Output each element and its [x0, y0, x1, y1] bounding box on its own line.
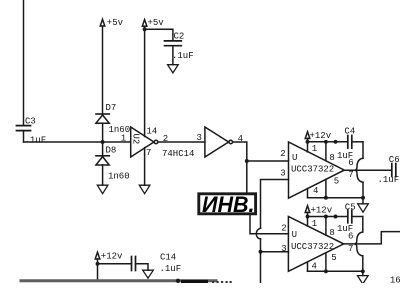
node dot +5v rail — [143, 27, 147, 31]
wire hop over net-label wire — [256, 228, 260, 239]
svg-text:8: 8 — [329, 153, 334, 163]
pin 4 line — [307, 189, 309, 198]
capacitor C2 — [165, 41, 182, 65]
wire bottom rail lower UCC — [308, 270, 363, 272]
svg-text:U2: U2 — [131, 133, 141, 144]
svg-text:1: 1 — [121, 134, 126, 144]
power +5v (second, feeds pin 14 and C2) — [142, 20, 147, 137]
svg-text:1uF: 1uF — [337, 224, 353, 234]
pin 5 line — [325, 179, 327, 197]
svg-text:1n60: 1n60 — [109, 125, 131, 135]
pin 8 line lower — [325, 217, 327, 236]
svg-text:1uF: 1uF — [337, 151, 353, 161]
node dots rail lower — [306, 215, 310, 219]
wire right vertical lower — [362, 217, 364, 233]
ground below C14 — [143, 270, 154, 278]
wire stub from box bottom to pin 2 of lower UCC — [250, 215, 288, 234]
node dot pin4/pin2 tee — [245, 159, 249, 163]
wire right vertical upper — [362, 142, 364, 159]
svg-text:14: 14 — [147, 127, 158, 137]
svg-text:2: 2 — [280, 149, 285, 159]
power +12v (upper) — [305, 132, 310, 142]
wire output pins 6/7 to C6 — [344, 169, 392, 171]
node dots top rail — [306, 140, 310, 144]
svg-text:7: 7 — [348, 170, 353, 180]
svg-text:ИНВ.: ИНВ. — [202, 192, 255, 217]
capacitor C14 — [132, 257, 149, 271]
clipped text marks on bus — [212, 281, 232, 283]
wire pin 3 of upper UCC37322 with corner down — [261, 180, 289, 229]
pin 1 line — [307, 142, 309, 152]
svg-text:C2: C2 — [174, 32, 185, 42]
wire pin 2 to pin 3 — [158, 141, 205, 143]
ground below upper UCC rail — [358, 198, 369, 213]
ground below lower UCC rail — [358, 271, 369, 284]
svg-text:+5v: +5v — [148, 18, 165, 28]
svg-text:2: 2 — [281, 224, 286, 234]
wire to C14 — [98, 263, 132, 265]
svg-text:.1uF: .1uF — [378, 175, 400, 185]
diode D7 — [96, 114, 109, 142]
svg-text:U: U — [292, 230, 297, 240]
svg-text:7: 7 — [146, 148, 151, 158]
wire +12v rail lower — [308, 216, 348, 218]
svg-text:+12v: +12v — [101, 252, 123, 262]
capacitor C3 — [17, 126, 31, 142]
wire bottom rail upper UCC — [308, 197, 364, 199]
svg-text:C4: C4 — [344, 127, 355, 137]
node dot on bus — [176, 279, 180, 283]
pin 5 line lower — [325, 253, 327, 271]
capacitor C4 — [348, 136, 363, 149]
svg-text:3: 3 — [197, 133, 202, 143]
ground below D8 — [97, 185, 108, 194]
svg-text:+5v: +5v — [107, 18, 124, 28]
wire thick ground bus bottom — [21, 279, 216, 282]
capacitor C5 — [348, 210, 363, 223]
svg-text:74HC14: 74HC14 — [162, 149, 194, 159]
wire main bus to inverter input pin 1 — [24, 141, 131, 143]
svg-text:+12v: +12v — [311, 205, 333, 215]
power +12v (lower) — [305, 206, 310, 217]
wire left vertical to C3 — [23, 0, 25, 124]
net label box ИНВ. — [199, 194, 256, 214]
svg-text:1n60: 1n60 — [108, 172, 130, 182]
svg-text:4: 4 — [313, 186, 318, 196]
svg-text:+12v: +12v — [310, 131, 332, 141]
wire vertical continuation down to bottom edge — [260, 239, 262, 283]
svg-text:3: 3 — [281, 244, 286, 254]
svg-text:5: 5 — [334, 176, 339, 186]
node dots bottom rail lower — [324, 269, 328, 273]
svg-text:UCC37322: UCC37322 — [291, 242, 334, 252]
svg-text:C3: C3 — [25, 117, 36, 127]
svg-text:7: 7 — [348, 244, 353, 254]
diode D8 — [96, 142, 109, 185]
inverter U2 gate A 74HC14 — [131, 127, 158, 157]
capacitor C6 — [392, 164, 396, 177]
wire pin 4 output, corner down to net label — [233, 142, 247, 193]
wire pin 2 of U? (UCC37322 upper) — [247, 160, 289, 162]
svg-text:3: 3 — [280, 169, 285, 179]
ground below C2 — [168, 65, 179, 73]
wire output lower UCC step to right edge — [344, 232, 400, 244]
svg-text:8: 8 — [329, 228, 334, 238]
svg-text:U: U — [292, 153, 297, 163]
svg-text:C5: C5 — [345, 203, 356, 213]
svg-text:16: 16 — [390, 276, 400, 284]
wire pin 3 of lower UCC37322 — [261, 251, 289, 253]
ground below pin 7 — [139, 185, 150, 194]
pin 8 line — [325, 142, 327, 161]
svg-text:1: 1 — [312, 144, 317, 154]
svg-text:4: 4 — [312, 261, 317, 271]
power +12v (bottom left) — [95, 252, 100, 280]
svg-text:5: 5 — [331, 253, 336, 263]
svg-text:.1uF: .1uF — [25, 135, 47, 145]
wire pin 7 to ground — [144, 148, 146, 186]
power +5v (left) — [100, 19, 105, 114]
node dots bottom rail — [324, 196, 328, 200]
wire +5v rail to C2 — [145, 29, 173, 40]
svg-text:.1uF: .1uF — [172, 51, 194, 61]
node dot +12v to C14 — [96, 262, 100, 266]
brace pins 6/7 lower — [355, 232, 363, 256]
svg-text:D7: D7 — [106, 103, 117, 113]
node junction D7/D8 on bus — [101, 140, 105, 144]
net label box (clipped at bottom edge) — [181, 280, 208, 284]
inverter gate B — [205, 127, 233, 157]
svg-text:UCC37322: UCC37322 — [291, 164, 334, 174]
svg-text:2: 2 — [163, 134, 168, 144]
op-amp U? UCC37322 (upper driver) — [289, 142, 345, 198]
svg-text:C6: C6 — [389, 155, 400, 165]
svg-text:1: 1 — [312, 219, 317, 229]
pin 1 line lower — [307, 217, 309, 227]
pin 4 line lower — [307, 262, 309, 271]
svg-text:C14: C14 — [160, 252, 176, 262]
wire +12v top rail — [308, 141, 348, 143]
svg-text:D8: D8 — [106, 146, 117, 156]
svg-text:4: 4 — [238, 134, 243, 144]
brace pins 6/7 upper — [355, 158, 363, 182]
node dot pin3 tee lower UCC — [259, 250, 263, 254]
svg-text:.1uF: .1uF — [160, 264, 182, 274]
op-amp UCC37322 (lower driver) — [288, 217, 343, 272]
